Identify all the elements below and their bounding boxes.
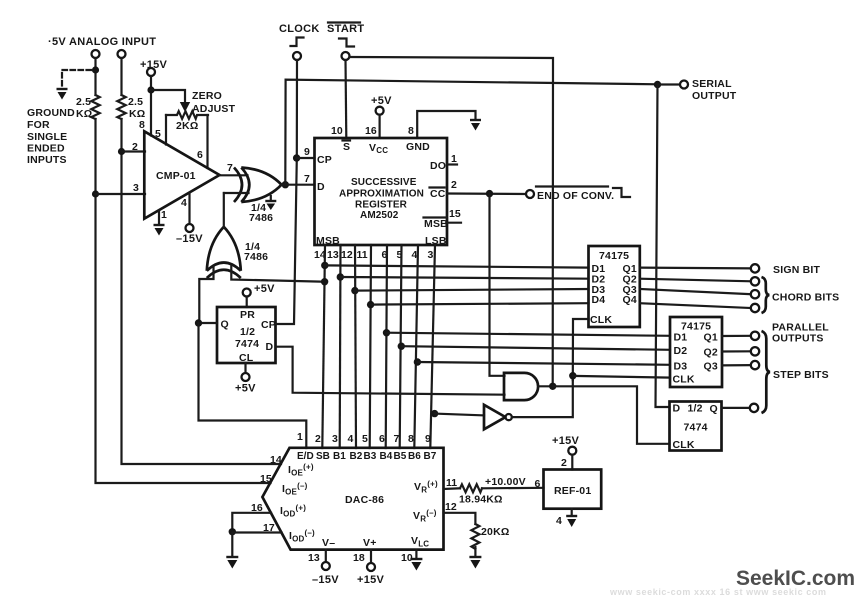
wire xor U2 output riser [223, 193, 225, 227]
svg-text:D2: D2 [674, 345, 688, 357]
wire Q4 out [640, 303, 751, 308]
node clock CP tap [293, 154, 300, 161]
svg-text:ADJUST: ADJUST [192, 103, 236, 115]
svg-text:13: 13 [308, 552, 320, 564]
wire xor U1 output to D [282, 184, 315, 186]
wire xor U2 left input [199, 267, 213, 324]
ground VLC [410, 559, 422, 571]
svg-text:3: 3 [133, 182, 139, 194]
label MSB bar [424, 218, 449, 231]
svg-text:DAC-86: DAC-86 [345, 494, 384, 506]
node bit4 tap [414, 358, 421, 365]
wire ref pin2 stub [571, 455, 573, 470]
wire inverter output [512, 380, 573, 417]
DAC U10 DAC-86 body [262, 448, 443, 550]
wire CMP-01 pin3 [96, 193, 146, 195]
svg-text:2: 2 [451, 179, 457, 191]
terminal step q2 [751, 347, 759, 355]
terminal START [342, 52, 350, 60]
wire U8 Q2 out [722, 350, 751, 352]
svg-text:SINGLE: SINGLE [27, 131, 67, 143]
wire U3 Q out [198, 322, 217, 324]
svg-text:CLK: CLK [673, 373, 695, 385]
svg-text:7: 7 [227, 162, 233, 174]
node rail A dashed tap [92, 66, 99, 73]
svg-text:+5V: +5V [254, 283, 275, 295]
node clk junction [569, 372, 576, 379]
svg-text:REF-01: REF-01 [554, 485, 591, 497]
pot wiper arrow [180, 102, 190, 112]
xor gate U2 1/4 7486 vertical [207, 227, 241, 278]
svg-text:CP: CP [261, 319, 276, 331]
wire V- stub [325, 550, 327, 562]
svg-text:1/2: 1/2 [240, 326, 255, 338]
wire U9 Q out [722, 407, 750, 409]
svg-text:15: 15 [449, 208, 461, 220]
svg-text:2: 2 [561, 457, 567, 469]
ground SAR pin8 [470, 120, 481, 131]
svg-text:OUTPUTS: OUTPUTS [772, 333, 824, 345]
svg-text:CLK: CLK [590, 314, 612, 326]
terminal -15V dac [322, 562, 330, 570]
svg-text:2KΩ: 2KΩ [176, 120, 198, 132]
wire MSB to D1 [325, 265, 589, 267]
node bit3 tap [431, 410, 438, 417]
terminal CLOCK [293, 52, 301, 60]
svg-text:V+: V+ [363, 537, 377, 549]
svg-text:CMP-01: CMP-01 [156, 170, 196, 182]
label CC bar [430, 188, 446, 201]
node bit11 tap [367, 301, 374, 308]
svg-text:7486: 7486 [244, 251, 268, 263]
inverter U6 [484, 405, 512, 430]
svg-text:D1: D1 [674, 331, 688, 343]
wire Q1 out [640, 267, 751, 270]
wire pot wiper feed [151, 90, 185, 103]
svg-text:6: 6 [535, 478, 541, 490]
svg-text:4: 4 [412, 249, 418, 261]
flip-flop U9 1/2 7474 [670, 402, 722, 451]
svg-text:SB: SB [316, 451, 330, 462]
wire bus bit13 line [339, 245, 342, 448]
svg-text:END OF CONV.: END OF CONV. [537, 190, 614, 202]
wire bit6 to D1b [387, 333, 671, 336]
node +15V pot tap [147, 86, 154, 93]
svg-text:REGISTER: REGISTER [355, 200, 408, 211]
wire bit4 to D3b [417, 362, 670, 365]
svg-text:APPROXIMATION: APPROXIMATION [339, 189, 424, 200]
wire Vcc stub [379, 115, 381, 138]
svg-text:+10.00V: +10.00V [485, 476, 526, 488]
svg-text:SERIAL: SERIAL [692, 78, 732, 90]
svg-text:1: 1 [451, 153, 457, 165]
svg-text:16: 16 [365, 125, 377, 137]
svg-text:D: D [266, 341, 274, 353]
svg-text:B2: B2 [350, 451, 363, 462]
wire +15V to pin8 [150, 76, 152, 136]
node bit13 tap [337, 273, 344, 280]
node serial output junction [654, 81, 661, 88]
svg-text:SUCCESSIVE: SUCCESSIVE [351, 177, 417, 188]
IC U4 AM2502 successive approximation register [315, 138, 448, 245]
wire xor U1 lower input [224, 192, 249, 194]
eoc edge glyph [613, 188, 630, 197]
potentiometer 2K body [166, 111, 208, 119]
wire bus bit11 line [370, 245, 371, 448]
terminal step q4 [750, 404, 758, 412]
wire AND out to 7474 CLK [553, 386, 670, 444]
wire rail B lower [122, 119, 282, 464]
svg-text:7474: 7474 [684, 422, 708, 434]
label START overline [328, 21, 360, 23]
resistor R3 18.94K [460, 484, 482, 492]
svg-text:4: 4 [181, 197, 187, 209]
wire Q3 out [640, 289, 751, 294]
svg-text:V–: V– [322, 537, 335, 549]
svg-text:·5V ANALOG INPUT: ·5V ANALOG INPUT [48, 36, 156, 48]
ground xor U1 [265, 196, 276, 210]
wire bus bit3 line [430, 245, 435, 448]
IC U8 74175 [670, 317, 722, 387]
wire resistor to ref [482, 487, 544, 490]
ground 20K [469, 557, 481, 569]
wire CP feed [297, 157, 315, 159]
node MSB tap D1 [321, 262, 328, 269]
brace step bits [762, 331, 771, 413]
svg-text:2.5: 2.5 [76, 96, 91, 108]
svg-text:DO: DO [430, 160, 446, 172]
svg-text:GROUND: GROUND [27, 107, 75, 119]
wire VLC stub [415, 550, 417, 558]
wire start to S pin [344, 60, 347, 138]
terminal +15V dac [367, 563, 375, 571]
svg-text:INPUTS: INPUTS [27, 154, 67, 166]
wire CC out [447, 192, 526, 195]
wire CL stub [244, 363, 246, 373]
svg-text:1/2: 1/2 [688, 403, 703, 415]
svg-text:SIGN BIT: SIGN BIT [773, 264, 820, 276]
wire AND output [538, 385, 553, 387]
terminal chord bit1 [751, 277, 759, 285]
svg-text:STEP BITS: STEP BITS [773, 369, 829, 381]
wire serial to terminal [658, 83, 681, 85]
resistor R2 2.5K [117, 95, 125, 119]
ground IOD [226, 557, 238, 569]
node MSB tap xor [321, 278, 328, 285]
wire V+ stub [370, 550, 372, 563]
svg-text:CLK: CLK [673, 439, 695, 451]
node Q sign [195, 319, 202, 326]
svg-text:9: 9 [304, 146, 310, 158]
xor gate U1 1/4 7486 [234, 168, 282, 203]
svg-text:START: START [327, 23, 364, 35]
terminal sign bit [751, 264, 759, 272]
wire bus bit5 line [400, 245, 402, 448]
svg-text:D: D [317, 181, 325, 193]
svg-text:MSB: MSB [316, 235, 340, 247]
node CC junction [486, 190, 493, 197]
svg-text:5: 5 [155, 128, 161, 140]
svg-text:7486: 7486 [249, 212, 273, 224]
start edge glyph [339, 39, 354, 47]
wire serial down to 7474 D [656, 85, 670, 408]
IC U11 REF-01 [544, 470, 602, 509]
wire PR stub [246, 297, 248, 308]
node bit12 tap [351, 287, 358, 294]
wire ref pin4 stub [571, 509, 573, 515]
flip-flop U3 1/2 7474 [217, 307, 276, 363]
svg-text:D: D [673, 403, 681, 415]
wire bit11 to D4 [371, 303, 589, 304]
resistor R1 2.5K [91, 95, 99, 119]
wire bit13 to D2 [340, 277, 588, 279]
svg-text:B7: B7 [424, 451, 437, 462]
svg-text:Q4: Q4 [623, 294, 637, 306]
svg-text:Q: Q [221, 319, 229, 331]
wire bus bit12 line [355, 245, 356, 448]
svg-text:D3: D3 [674, 360, 688, 372]
svg-text:CP: CP [317, 154, 332, 166]
svg-text:–15V: –15V [176, 233, 203, 245]
svg-text:6: 6 [197, 149, 203, 161]
wire IOD+ [232, 513, 271, 533]
wire CMP-01 pin1 stub [158, 211, 160, 225]
wire Q2 out [640, 279, 751, 282]
wire U8 Q1 out [722, 335, 751, 337]
svg-text:CC: CC [430, 188, 446, 200]
svg-text:B6: B6 [408, 451, 421, 462]
svg-text:+15V: +15V [357, 574, 385, 586]
svg-text:18.94KΩ: 18.94KΩ [459, 494, 503, 506]
wire bus bit4 line [414, 245, 418, 448]
label S bar [343, 141, 351, 154]
svg-text:B1: B1 [333, 451, 346, 462]
svg-text:Q2: Q2 [704, 347, 718, 359]
svg-text:ZERO: ZERO [192, 90, 222, 102]
svg-text:9: 9 [425, 433, 431, 445]
IC U7 74175 [589, 246, 640, 327]
wire U3 D route to AND [276, 347, 505, 395]
svg-text:7: 7 [394, 433, 400, 445]
svg-text:12: 12 [445, 501, 457, 513]
wire SAR gnd route [417, 111, 475, 138]
svg-text:7474: 7474 [235, 338, 259, 350]
wire dashed ground link [62, 70, 91, 86]
wire DO stub [447, 163, 457, 165]
wire rail A middle [96, 119, 271, 483]
svg-text:13: 13 [327, 249, 339, 261]
svg-text:D4: D4 [592, 294, 606, 306]
svg-text:B5: B5 [394, 451, 407, 462]
svg-text:2.5: 2.5 [128, 96, 143, 108]
svg-text:8: 8 [139, 119, 145, 131]
svg-text:MSB: MSB [424, 218, 448, 230]
wire U8 Q3 out [722, 364, 751, 366]
svg-text:Q: Q [710, 403, 718, 415]
wire IOD- [232, 533, 281, 557]
wire bus bit6 line [386, 245, 387, 448]
svg-text:12: 12 [341, 249, 353, 261]
svg-text:Q1: Q1 [704, 331, 718, 343]
svg-text:AM2502: AM2502 [360, 210, 399, 221]
clock edge glyph [291, 38, 304, 47]
wire rail B [120, 58, 122, 95]
svg-text:20KΩ: 20KΩ [481, 526, 509, 538]
node rail A pin3 [92, 190, 99, 197]
svg-text:5: 5 [362, 433, 368, 445]
svg-text:74175: 74175 [599, 250, 629, 262]
svg-text:+15V: +15V [552, 435, 580, 447]
svg-text:11: 11 [357, 249, 368, 261]
wire CMP-01 output [220, 174, 248, 176]
svg-text:10: 10 [331, 125, 343, 137]
wire rail A top [94, 58, 96, 95]
op-amp comparator CMP-01 [144, 131, 219, 218]
wire CMP-01 pin2 [122, 150, 146, 152]
ground single-ended [57, 89, 68, 100]
node serial/D junction [282, 181, 289, 188]
terminal step q3 [751, 361, 759, 369]
node rail B pin2 [118, 148, 125, 155]
svg-text:+5V: +5V [371, 95, 392, 107]
label END OF CONV overline [536, 185, 608, 187]
wire Q to DAC E/D [199, 323, 307, 448]
svg-text:7: 7 [304, 173, 310, 185]
wire MSB stub [447, 222, 461, 224]
terminal +15V ref [568, 447, 576, 455]
svg-text:1: 1 [297, 431, 303, 443]
svg-text:FOR: FOR [27, 119, 50, 131]
node AND output junction [549, 383, 556, 390]
svg-text:CHORD BITS: CHORD BITS [772, 292, 839, 304]
wire pot left to pin5 [165, 115, 167, 145]
node bit6 tap [383, 329, 390, 336]
wire clk to 74175b [573, 376, 670, 378]
terminal analog input A [92, 50, 100, 58]
wire bus MSB line [322, 245, 325, 448]
svg-text:6: 6 [379, 433, 385, 445]
node bit5 tap [398, 343, 405, 350]
wire bit5 to D2b [401, 346, 670, 350]
wire VR- out [444, 513, 476, 524]
svg-text:4: 4 [556, 515, 562, 527]
svg-text:B4: B4 [380, 451, 393, 462]
terminal end of conversion [526, 190, 534, 198]
terminal +15V [147, 68, 155, 76]
wire start long line [350, 57, 554, 386]
wire bit3 to inverter [435, 414, 484, 416]
svg-text:4: 4 [348, 433, 354, 445]
svg-text:SeekIC.com: SeekIC.com [736, 567, 855, 590]
terminal +5V CL [242, 373, 250, 381]
svg-text:S: S [343, 141, 350, 153]
wire xor U2 right input [231, 267, 325, 282]
terminal step q1 [751, 332, 759, 340]
svg-text:GND: GND [406, 141, 430, 153]
wire 20K to gnd [474, 547, 476, 556]
and gate U5 [504, 373, 538, 400]
wire clock line [276, 60, 298, 324]
wire CC down to AND [490, 194, 505, 376]
wire pot right to pin6 [206, 115, 208, 168]
svg-text:3: 3 [332, 433, 338, 445]
wire VR+ to resistor [444, 487, 461, 490]
svg-text:11: 11 [446, 477, 457, 489]
terminal analog input B [118, 50, 126, 58]
terminal -15V [186, 224, 194, 232]
svg-text:14: 14 [270, 454, 282, 466]
resistor R4 20K [471, 524, 479, 549]
node IOD join [229, 528, 236, 535]
svg-text:CLOCK: CLOCK [279, 23, 320, 35]
terminal chord bit2 [751, 290, 759, 298]
terminal +5V PR [243, 289, 251, 297]
ground CMP-01 pin1 [154, 225, 165, 236]
svg-text:ENDED: ENDED [27, 143, 65, 155]
svg-text:KΩ: KΩ [76, 108, 92, 120]
terminal +5V SAR [376, 107, 384, 115]
svg-text:–15V: –15V [312, 574, 339, 586]
svg-text:2: 2 [315, 433, 321, 445]
terminal chord bit3 [751, 304, 759, 312]
svg-text:2: 2 [132, 141, 138, 153]
svg-text:OUTPUT: OUTPUT [692, 90, 737, 102]
wire CLK1 route [573, 319, 589, 380]
svg-text:3: 3 [428, 249, 434, 261]
svg-text:+5V: +5V [235, 383, 256, 395]
svg-text:PR: PR [240, 309, 255, 321]
svg-text:15: 15 [260, 473, 272, 485]
svg-text:1: 1 [161, 209, 167, 221]
svg-text:18: 18 [353, 552, 365, 564]
svg-text:8: 8 [408, 433, 414, 445]
wire serial riser [285, 80, 657, 185]
svg-text:B3: B3 [364, 451, 377, 462]
wire CMP-01 pin4 stub [188, 193, 190, 224]
ground ref [566, 516, 577, 527]
brace chord bits [762, 277, 770, 313]
wire bit12 to D3 [355, 289, 589, 291]
terminal serial output [680, 81, 688, 89]
svg-text:E/D: E/D [297, 451, 314, 462]
svg-text:Q3: Q3 [704, 360, 718, 372]
svg-text:8: 8 [408, 125, 414, 137]
